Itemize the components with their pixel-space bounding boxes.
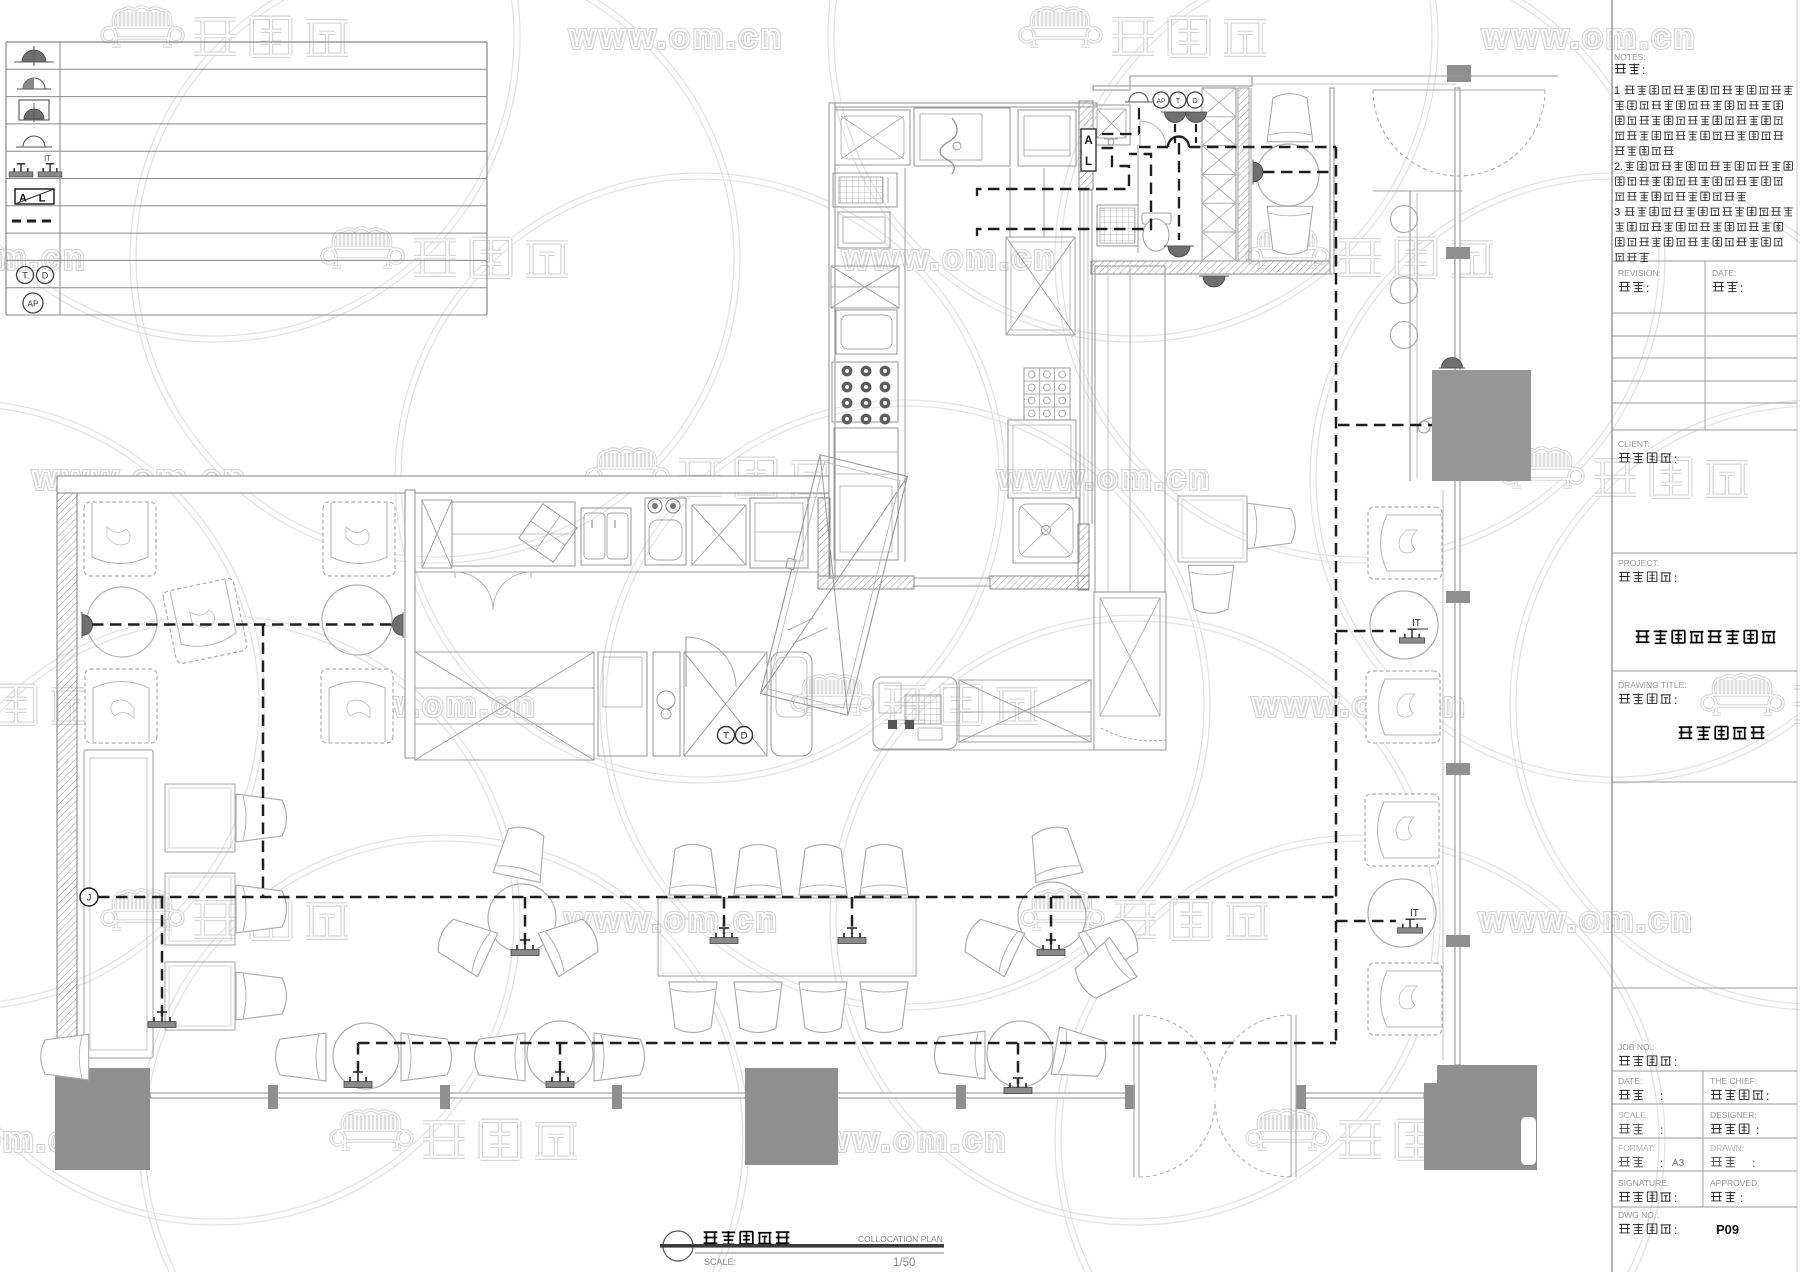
round table RT5 xyxy=(333,1023,399,1089)
cabinet strip below toilet xyxy=(1095,266,1165,592)
square table ST2 xyxy=(165,962,235,1030)
svg-text::: : xyxy=(1674,571,1677,585)
socket S1 xyxy=(148,1012,176,1028)
chair below LT 1 xyxy=(669,982,717,1033)
svg-text:www.om.cn: www.om.cn xyxy=(1479,901,1695,939)
column E-mid (gray) xyxy=(1432,370,1531,481)
svg-text::: : xyxy=(1756,1123,1759,1137)
armchair R2 xyxy=(1366,671,1440,743)
kitchen top counter unit 1 xyxy=(835,110,910,165)
wire bottom horizontal y1043 xyxy=(358,1042,1336,1045)
chairs at RT4 xyxy=(959,823,1145,977)
chairs at RT10 xyxy=(1267,94,1313,255)
svg-text:D: D xyxy=(42,271,49,281)
wire stub to socket S4 xyxy=(851,897,854,934)
svg-text:www.om.cn: www.om.cn xyxy=(842,239,1058,277)
kitchen left lower counter xyxy=(834,428,898,560)
socket S4 xyxy=(838,928,866,944)
wire trunk top xyxy=(1139,137,1336,148)
plan title english xyxy=(858,1234,943,1244)
round table RT1 xyxy=(87,587,157,657)
IT round table RT8 xyxy=(1370,591,1438,659)
right wall mullion 2 xyxy=(1446,591,1470,603)
chair below LT 3 xyxy=(799,982,847,1033)
wire branch to IT table 1 xyxy=(1336,630,1396,633)
wire stub to socket S5 xyxy=(1050,897,1053,946)
top counter X box xyxy=(422,500,452,568)
round table RT10 xyxy=(1257,144,1319,206)
kitchen island duct xyxy=(1010,168,1044,237)
chair at ST3 east xyxy=(1247,503,1295,549)
svg-text:JOB NO.:: JOB NO.: xyxy=(1618,1042,1654,1052)
date label xyxy=(1712,268,1743,295)
socket S3 xyxy=(710,928,738,944)
kitchen south wall hatched (east) xyxy=(990,576,1089,589)
kitchen left grate box xyxy=(833,173,897,207)
IT socket T1 xyxy=(1399,618,1428,643)
kitchen island sink xyxy=(1013,498,1079,563)
armchair R1 xyxy=(1368,507,1442,579)
mid counter unit 4 xyxy=(684,652,767,756)
chairs at RT6 xyxy=(475,1033,645,1081)
svg-text:www.om.cn: www.om.cn xyxy=(997,459,1213,497)
right exterior wall xyxy=(1455,88,1460,1065)
job no label xyxy=(1618,1042,1677,1069)
wire branch to IT table 2 xyxy=(1336,920,1396,923)
bottom wall east segment xyxy=(1296,1093,1424,1098)
svg-text::: : xyxy=(1674,693,1677,707)
svg-text:IT: IT xyxy=(44,154,51,163)
top counter burner sink xyxy=(645,498,686,565)
booth bench west xyxy=(84,750,153,1058)
round table RT4 xyxy=(1018,882,1086,950)
svg-text:CLIENT:: CLIENT: xyxy=(1618,439,1650,449)
toilet north wall xyxy=(1093,76,1252,90)
entry door swing arc xyxy=(1373,90,1545,176)
plan title bubble xyxy=(663,1231,693,1261)
svg-text::: : xyxy=(1660,1156,1663,1170)
svg-text:COLLOCATION PLAN: COLLOCATION PLAN xyxy=(858,1234,943,1244)
chairs at RT3 xyxy=(432,823,605,977)
svg-text:REVISION:: REVISION: xyxy=(1618,268,1661,278)
wire stub to socket S6 xyxy=(357,1043,360,1078)
svg-text:DWG NO.:: DWG NO.: xyxy=(1618,1210,1659,1220)
svg-text:DATE:: DATE: xyxy=(1618,1076,1642,1086)
designer row xyxy=(1710,1110,1759,1137)
wall lamp WL1 xyxy=(82,612,93,638)
bottom wall mullion 3 xyxy=(612,1085,622,1109)
toilet fixture xyxy=(1142,213,1171,251)
square table ST1 xyxy=(165,784,235,852)
svg-text:2.: 2. xyxy=(1614,161,1623,173)
armchair R3 xyxy=(1365,794,1439,866)
square table ST1b xyxy=(165,873,235,945)
circle AP xyxy=(1153,92,1169,108)
circle D xyxy=(1187,92,1203,108)
chairs at RT5 xyxy=(276,1033,452,1081)
top counter unit 6 xyxy=(750,498,808,568)
wire AP stub xyxy=(1102,108,1139,134)
socket S6 xyxy=(344,1072,372,1088)
long table LT xyxy=(658,898,916,976)
svg-text::: : xyxy=(1660,1123,1663,1137)
svg-text:L: L xyxy=(1085,156,1092,168)
column S-mid (gray) xyxy=(745,1068,838,1165)
svg-text:AP: AP xyxy=(27,299,39,309)
legend table grid xyxy=(6,42,487,315)
svg-text:J: J xyxy=(87,893,92,903)
svg-text:FORMAT:: FORMAT: xyxy=(1618,1143,1655,1153)
svg-text:1/50: 1/50 xyxy=(893,1257,915,1269)
chair at ST3 south xyxy=(1188,565,1234,613)
svg-text:THE CHIEF:: THE CHIEF: xyxy=(1710,1076,1757,1086)
toilet room divider xyxy=(1137,145,1139,253)
svg-text:www.om.cn: www.om.cn xyxy=(564,901,780,939)
svg-text:PROJECT:: PROJECT: xyxy=(1618,558,1659,568)
kitchen east lower pier xyxy=(1078,524,1089,590)
svg-text:DESIGNER:: DESIGNER: xyxy=(1710,1110,1757,1120)
aisle door swing xyxy=(686,637,736,687)
chair above LT 4 xyxy=(860,845,908,896)
kitchen left unit 3 xyxy=(831,266,899,308)
legend circle AP xyxy=(23,293,43,313)
IT socket T2 xyxy=(1397,908,1426,933)
project title xyxy=(1636,630,1776,643)
svg-text::: : xyxy=(1660,1089,1663,1103)
chair above LT 2 xyxy=(734,845,782,896)
sheet row xyxy=(1618,1143,1685,1170)
svg-text:DRAWN:: DRAWN: xyxy=(1710,1143,1744,1153)
armchair A3 (rotated) xyxy=(162,577,248,664)
plan title underline xyxy=(660,1244,944,1253)
chairs at RT7 xyxy=(935,1027,1110,1083)
approved row xyxy=(1710,1178,1760,1205)
kitchen east wall xyxy=(1080,190,1092,524)
round table RT2 xyxy=(322,585,392,655)
right wall mullion 3 xyxy=(1446,763,1470,775)
svg-text::: : xyxy=(1674,1223,1677,1237)
service counter base line xyxy=(874,749,1166,751)
svg-text::: : xyxy=(1740,281,1743,295)
date row xyxy=(1618,1076,1663,1103)
kitchen island cabinet low xyxy=(1008,420,1076,498)
junction J xyxy=(80,888,98,906)
sheet number P09 xyxy=(1716,1222,1739,1237)
project label xyxy=(1618,558,1677,585)
svg-text:NOTES:: NOTES: xyxy=(1614,52,1646,62)
IT round table RT9 xyxy=(1368,879,1436,947)
kitchen left unit 4 xyxy=(836,310,897,354)
washing machine xyxy=(1097,205,1138,246)
socket S2 xyxy=(511,940,539,956)
top counter long box xyxy=(452,502,577,566)
bottom wall mullion 5 xyxy=(1125,1085,1135,1109)
kitchen west hatched pier xyxy=(818,498,830,576)
svg-text:A: A xyxy=(19,193,27,205)
round table RT7 xyxy=(987,1021,1053,1087)
wire branch to column E-mid xyxy=(1338,424,1432,427)
mid counter unit 3 (mixer) xyxy=(653,652,680,756)
tilted chair near door xyxy=(1068,937,1137,1005)
legend lamp symbol (boxed downlight) xyxy=(19,100,49,122)
service counter east (tall) xyxy=(1094,592,1166,750)
wire lamp stubs xyxy=(1175,124,1196,143)
service counter west (rounded) xyxy=(873,677,957,749)
wall lamp WL2 xyxy=(393,612,404,638)
kitchen east hatched pier xyxy=(1079,101,1093,190)
armchair A5 xyxy=(321,669,393,743)
svg-text:1: 1 xyxy=(1614,85,1620,97)
svg-text:D: D xyxy=(741,731,748,742)
svg-text:www.om.cn: www.om.cn xyxy=(1482,18,1698,56)
column SW (gray) xyxy=(55,1068,150,1170)
wire stub to socket S1 xyxy=(161,897,164,1018)
chief row xyxy=(1710,1076,1769,1103)
title block frame xyxy=(1612,0,1797,1272)
svg-text:APPROVED:: APPROVED: xyxy=(1710,1178,1760,1188)
ceiling lamp under T xyxy=(1161,112,1189,123)
socket S8 xyxy=(1004,1078,1032,1094)
circle T xyxy=(1170,92,1186,108)
scale row xyxy=(1618,1110,1663,1137)
svg-text:T: T xyxy=(723,731,729,742)
wire kitchen loop 1 xyxy=(977,148,1129,196)
wall lamp on column E-mid xyxy=(1439,358,1465,369)
revision label xyxy=(1618,268,1661,295)
chair at ST1b xyxy=(236,885,287,933)
legend dashed circuit line xyxy=(12,220,56,223)
wire toilet vertical xyxy=(1178,143,1180,240)
chair at ST2 xyxy=(236,972,287,1020)
legend distribution panel A-L xyxy=(15,189,54,205)
wire left tables xyxy=(92,623,395,626)
wire stub to socket S8 xyxy=(1017,1043,1020,1084)
plan title text xyxy=(704,1231,790,1244)
wire lamp link y170 xyxy=(1263,171,1336,174)
right wall mullion 4 xyxy=(1446,935,1470,947)
armchair A2 xyxy=(323,502,395,576)
bar counter xyxy=(1373,191,1462,481)
legend lamp symbol (half lamp) xyxy=(17,78,51,89)
top wall line to entry xyxy=(1252,76,1558,84)
svg-text:IT: IT xyxy=(1412,618,1421,629)
column SE (gray) xyxy=(1424,1065,1537,1170)
svg-text::: : xyxy=(1766,1089,1769,1103)
svg-text:T: T xyxy=(22,271,28,281)
svg-text:P09: P09 xyxy=(1716,1222,1739,1237)
chair above LT 3 xyxy=(799,845,847,896)
chair above LT 1 xyxy=(669,845,717,896)
kitchen left counter front edge xyxy=(904,168,906,562)
top counter X box 2 xyxy=(692,505,746,565)
svg-text:DATE:: DATE: xyxy=(1712,268,1736,278)
kitchen top counter unit 3 (oven) xyxy=(1018,110,1076,166)
svg-text::: : xyxy=(1646,281,1649,295)
wire kitchen loop 2 xyxy=(977,154,1151,236)
svg-text:A: A xyxy=(1084,135,1092,147)
wire main horizontal y897 xyxy=(98,896,1336,899)
legend lamp symbol (open half-dome) xyxy=(16,136,52,147)
kitchen pass-through sill xyxy=(914,578,990,586)
service counter middle xyxy=(959,680,1091,742)
toilet door swing xyxy=(1140,121,1166,147)
svg-text::: : xyxy=(1740,1191,1743,1205)
mid counter unit 5 xyxy=(771,652,812,756)
kitchen gas range (12 burners) xyxy=(832,362,898,424)
svg-text:3: 3 xyxy=(1614,207,1620,219)
right wall top block xyxy=(1447,65,1471,82)
chair below LT 4 xyxy=(860,982,908,1033)
bottom wall mullion 4 xyxy=(956,1085,966,1109)
wire stub to socket S3 xyxy=(723,897,726,934)
armchair R4 xyxy=(1368,963,1442,1035)
double swing door xyxy=(1134,1015,1296,1177)
corridor west wall xyxy=(1330,88,1334,274)
circles T D at counter xyxy=(718,727,753,744)
svg-text:D: D xyxy=(1192,96,1198,105)
kitchen south wall hatched (west) xyxy=(818,576,914,589)
square table ST3 xyxy=(1178,496,1247,562)
svg-text:SIGNATURE:: SIGNATURE: xyxy=(1618,1178,1669,1188)
kitchen west wall xyxy=(829,103,835,578)
left exterior wall (hatched) xyxy=(57,485,77,1068)
svg-text:DRAWING TITLE:: DRAWING TITLE: xyxy=(1618,680,1686,690)
svg-text:AP: AP xyxy=(1157,98,1166,105)
bottom wall mullion 1 xyxy=(268,1085,278,1109)
svg-text::: : xyxy=(1674,1191,1677,1205)
mid counter big unit xyxy=(415,652,594,760)
chair below LT 2 xyxy=(734,982,782,1033)
kitchen left unit 2 xyxy=(838,212,890,248)
open half-dome lamp xyxy=(1125,93,1152,103)
svg-text::: : xyxy=(1674,452,1677,466)
distribution panel A-L xyxy=(1081,129,1096,171)
top counter double sink xyxy=(581,508,631,565)
kitchen island burner grids xyxy=(1024,368,1070,420)
bottom wall mullion 2 xyxy=(440,1085,450,1109)
svg-text:SCALE:: SCALE: xyxy=(1618,1110,1648,1120)
round table RT6 xyxy=(527,1021,593,1087)
chair bottom-left xyxy=(41,1034,89,1080)
legend circles T D xyxy=(17,267,54,284)
right wall mullion 1 xyxy=(1446,247,1470,259)
ceiling lamp corridor xyxy=(1199,276,1229,287)
armchair A4 xyxy=(85,669,157,743)
aisle partition wall xyxy=(405,490,415,758)
sink room (WC lobby) xyxy=(1093,105,1130,145)
wire stub to socket S7 xyxy=(559,1043,562,1078)
socket S7 xyxy=(546,1072,574,1088)
bar stools xyxy=(1391,206,1418,349)
drawing title label xyxy=(1618,680,1686,707)
right wall inner face xyxy=(1442,490,1444,1060)
svg-text:A3: A3 xyxy=(1672,1158,1685,1169)
notes header xyxy=(1614,52,1646,77)
svg-text:www.om.cn: www.om.cn xyxy=(569,18,785,56)
bottom wall mullion 6 xyxy=(1296,1085,1306,1109)
legend floor socket symbols xyxy=(9,154,62,177)
svg-text::: : xyxy=(1752,1156,1755,1170)
wire branch down x263 xyxy=(262,625,265,898)
svg-text:SCALE:: SCALE: xyxy=(704,1257,736,1267)
wire trunk vertical x1336 xyxy=(1335,147,1338,1043)
wall lamp WL3 xyxy=(1253,160,1263,185)
svg-text::: : xyxy=(1642,63,1645,77)
ceiling lamp under D xyxy=(1186,112,1207,123)
svg-text:IT: IT xyxy=(1410,908,1419,919)
toilet south hatched wall xyxy=(1091,261,1332,274)
counter front edge xyxy=(415,490,818,572)
socket S5 xyxy=(1037,940,1065,956)
cabinet door swings xyxy=(455,572,531,610)
plan scale label xyxy=(704,1257,736,1267)
wire stub to socket S2 xyxy=(524,897,527,946)
drawing title xyxy=(1679,726,1765,739)
drawn row xyxy=(1710,1143,1755,1170)
kitchen top counter unit 2 (sink+hose) xyxy=(914,108,1010,174)
column E-mid arc detail xyxy=(1417,418,1432,433)
chair at ST1 xyxy=(236,794,287,842)
armchair A1 xyxy=(84,502,156,576)
plan scale value xyxy=(893,1257,915,1269)
notes paragraphs xyxy=(1614,85,1793,262)
client label xyxy=(1618,439,1677,466)
ceiling lamp toilet south xyxy=(1164,246,1194,257)
tilted glass display cabinet xyxy=(755,453,908,715)
legend lamp symbol (ceiling lamp, filled) xyxy=(14,46,54,66)
top dining wall xyxy=(57,476,829,493)
kitchen island X cabinet xyxy=(1006,237,1075,335)
round table RT3 xyxy=(488,884,556,952)
dwg no label xyxy=(1618,1210,1677,1237)
bottom wall west segment xyxy=(150,1093,1133,1098)
mid counter unit 2 xyxy=(598,652,647,756)
kitchen north wall xyxy=(829,103,1097,107)
svg-text::: : xyxy=(1674,1055,1677,1069)
svg-text:T: T xyxy=(1176,96,1181,105)
shaft lattice block xyxy=(1202,88,1251,261)
signature row xyxy=(1618,1178,1677,1205)
